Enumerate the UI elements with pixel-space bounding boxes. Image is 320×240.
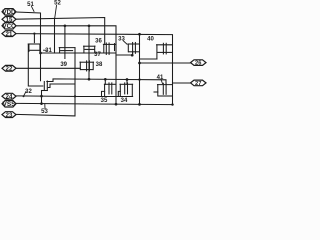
svg-text:21: 21 bbox=[6, 31, 13, 38]
wire T33 bar drop to y55 node bbox=[132, 51, 134, 55]
transistor T34 bbox=[120, 83, 133, 85]
terminal 27 bbox=[191, 80, 207, 86]
wire T32 source column bbox=[41, 91, 43, 105]
wire VDD rail, corner down through T31 right leg to T32 drain bbox=[16, 12, 41, 81]
wire VCC feed through T39 with gate stub below bbox=[64, 26, 66, 59]
junction W79-T35 bbox=[104, 78, 107, 81]
wire W79 cross rail, T32 drain to T41 top bbox=[47, 79, 166, 85]
svg-text:38: 38 bbox=[96, 62, 103, 68]
leader 53 bbox=[44, 104, 46, 109]
svg-text:23: 23 bbox=[6, 112, 13, 119]
wire 15 rail, corner down to T37 top bar bbox=[16, 18, 105, 45]
svg-text:52: 52 bbox=[54, 1, 61, 7]
terminal 22 bbox=[2, 65, 16, 71]
leader 31 bbox=[44, 49, 48, 51]
wire y59 link V12 to T40 source leg bbox=[140, 58, 157, 60]
junction W79-V12 bbox=[138, 78, 140, 80]
transistor T38 bbox=[80, 61, 94, 63]
leader 33 bbox=[124, 41, 128, 44]
svg-text:39: 39 bbox=[60, 62, 67, 68]
junction 21-T31 bbox=[33, 32, 35, 34]
wire 23 rail bbox=[16, 114, 75, 116]
wire 27 output branch bbox=[173, 82, 191, 84]
junction 24-T32 bbox=[40, 95, 43, 98]
wire V12: 21 rail through T33 right leg down to VSS bbox=[139, 34, 141, 105]
terminal VSS bbox=[2, 101, 16, 107]
junction VSS-T32 bbox=[40, 102, 43, 105]
svg-text:51: 51 bbox=[27, 2, 34, 8]
transistor T32 (rotated) bbox=[43, 82, 45, 90]
junction W79-T34 bbox=[126, 78, 129, 81]
transistor T31 bbox=[28, 43, 40, 45]
wire x75 column: T39 right leg down to 23 rail bbox=[74, 48, 76, 116]
svg-text:VCC: VCC bbox=[3, 24, 17, 30]
svg-text:31: 31 bbox=[45, 48, 52, 54]
svg-text:VSS: VSS bbox=[3, 102, 16, 108]
wire VCC feed through T36 and T38 down to W79 bbox=[88, 26, 90, 80]
wire 24 rail, bottom rail of T34/T35 bbox=[16, 95, 133, 98]
svg-text:26: 26 bbox=[195, 61, 201, 67]
svg-text:27: 27 bbox=[195, 81, 201, 87]
wire W53 common rail bbox=[41, 52, 117, 54]
transistor T33 bbox=[128, 43, 140, 45]
transistor T37 bbox=[103, 43, 116, 45]
terminal 26 bbox=[191, 60, 207, 66]
wire 52 drop down to W53 bbox=[54, 18, 56, 53]
svg-text:22: 22 bbox=[6, 66, 13, 73]
terminal 15 bbox=[2, 16, 16, 22]
terminal 24 bbox=[2, 93, 16, 99]
svg-text:41: 41 bbox=[157, 75, 164, 81]
wire 21 feed to T31 bbox=[33, 34, 35, 43]
wire 26 output from V12 bbox=[140, 62, 191, 64]
wire T34 gate jog bbox=[118, 91, 120, 96]
terminal VDD bbox=[2, 9, 16, 15]
leader 52 bbox=[55, 6, 57, 19]
transistor T35 bbox=[104, 83, 116, 85]
junction W53-VDDcol bbox=[39, 52, 42, 55]
junction VSS-21col bbox=[171, 103, 173, 105]
transistor T41 bbox=[158, 84, 173, 86]
svg-text:33: 33 bbox=[118, 37, 125, 43]
wire 21 rail, corner down as T40 right leg continuing to 27 wire bbox=[16, 34, 173, 105]
wire y55 link V11 to T33 bar bbox=[116, 54, 133, 56]
wire VCC rail, corner down as T37 right leg continuing to VSS bbox=[16, 26, 116, 105]
junction W79-T38 bbox=[88, 78, 91, 81]
wire T32 gate feed from node (75,84) bbox=[48, 84, 75, 88]
svg-text:36: 36 bbox=[95, 39, 102, 45]
wire T31 left leg down to T32 gate bbox=[28, 44, 43, 86]
T41 gate stub bbox=[154, 91, 158, 93]
junction y55-T33 bbox=[131, 54, 134, 57]
leader 32 bbox=[24, 92, 27, 97]
terminal 21 bbox=[2, 31, 16, 37]
wire VSS rail, rising as T41 right leg bbox=[16, 103, 173, 104]
svg-text:34: 34 bbox=[121, 98, 128, 104]
wire T35 gate jog bbox=[102, 91, 105, 96]
junction 32 leader blob bbox=[23, 95, 25, 97]
svg-text:32: 32 bbox=[25, 89, 32, 95]
transistor T39 bbox=[59, 47, 75, 49]
svg-text:37: 37 bbox=[94, 52, 101, 58]
leader 41 bbox=[161, 80, 163, 84]
junction VCC-T39 bbox=[64, 24, 67, 27]
transistor T40 bbox=[157, 44, 173, 46]
svg-text:53: 53 bbox=[41, 109, 48, 115]
junction VCC-T36 bbox=[88, 24, 91, 27]
wire W79 feed into T34 bbox=[126, 79, 128, 84]
junction VSS-V12 bbox=[138, 103, 141, 106]
leader 51 bbox=[32, 7, 35, 12]
svg-text:40: 40 bbox=[147, 37, 154, 43]
svg-text:VDD: VDD bbox=[3, 10, 17, 16]
junction 24-23col bbox=[74, 95, 76, 97]
svg-text:15: 15 bbox=[6, 17, 13, 24]
terminal 23 bbox=[2, 112, 16, 118]
wire W79 feed into T35 bbox=[104, 79, 106, 84]
terminal VCC bbox=[2, 23, 16, 29]
svg-text:24: 24 bbox=[6, 93, 13, 100]
junction 26 tap bbox=[138, 62, 141, 65]
wire 22 rail to T38 left leg bbox=[16, 67, 80, 69]
svg-text:35: 35 bbox=[101, 98, 108, 104]
junction 21-T33 bbox=[138, 33, 141, 36]
junction VSS-V11 bbox=[115, 103, 118, 106]
transistor T36 bbox=[84, 45, 95, 47]
